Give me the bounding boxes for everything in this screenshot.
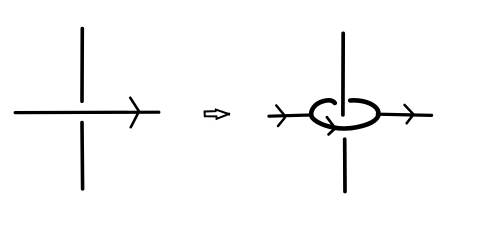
wire vertical upper segment (left crossing) xyxy=(80,29,84,102)
arrowhead on outgoing wire (right figure) xyxy=(405,105,414,123)
wire horizontal (left crossing, over-strand) xyxy=(15,111,159,115)
wire vertical lower segment (left crossing) xyxy=(80,123,84,189)
loop (ellipse with top gap where vertical wire passes) xyxy=(311,100,378,128)
wire horizontal outgoing (right figure, right side) xyxy=(377,114,431,115)
wire horizontal incoming (right figure, left side) xyxy=(269,115,311,116)
arrowhead on left-figure horizontal wire xyxy=(130,98,139,127)
arrowhead on incoming wire (right figure) xyxy=(276,106,285,127)
implication arrow (hollow double-arrow symbol) xyxy=(205,110,231,119)
wire vertical lower segment (right figure) xyxy=(343,139,347,191)
loop direction arrowhead (on bottom-left of loop) xyxy=(327,117,335,134)
wire vertical upper segment (right figure) xyxy=(341,33,345,115)
